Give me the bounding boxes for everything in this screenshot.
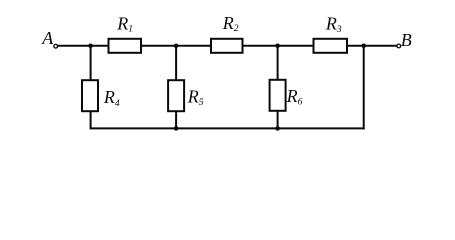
junction node 2 [174, 44, 179, 49]
junction node 3 [275, 44, 280, 49]
svg-text:R4: R4 [103, 87, 120, 109]
svg-text:R2: R2 [222, 13, 239, 34]
wire node2 down to R5 [175, 46, 177, 80]
svg-text:R1: R1 [116, 14, 133, 35]
bottom rail wire [90, 127, 365, 129]
wire R2 to R3 [243, 45, 314, 47]
svg-text:R6: R6 [286, 86, 303, 108]
resistor R1 [109, 39, 142, 53]
wire R1 to R2 [141, 45, 211, 47]
wire node3 down to R6 [277, 46, 279, 80]
svg-text:B: B [401, 30, 412, 50]
resistor R5 [168, 80, 184, 111]
wire R3 to B [347, 45, 397, 47]
junction node 4 [361, 44, 366, 49]
resistor R3 [314, 39, 348, 53]
junction node 6 on bottom rail [275, 126, 280, 131]
wire node4 down to bottom rail [363, 46, 365, 130]
resistor R6 [270, 80, 286, 111]
wire R5 to bottom rail [175, 111, 177, 128]
junction node 5 on bottom rail [174, 126, 179, 131]
resistor R2 [211, 39, 243, 53]
wire R6 to bottom rail [277, 111, 279, 129]
svg-text:A: A [41, 28, 54, 48]
svg-text:R5: R5 [187, 87, 204, 109]
junction node 1 [88, 44, 93, 49]
svg-text:R3: R3 [325, 14, 342, 35]
resistor R4 [82, 80, 98, 111]
wire A to R1 [58, 45, 109, 47]
wire node1 down to R4 [90, 46, 92, 80]
terminal A [54, 44, 58, 48]
wire R4 to bottom rail [90, 111, 92, 128]
terminal B [397, 44, 401, 48]
